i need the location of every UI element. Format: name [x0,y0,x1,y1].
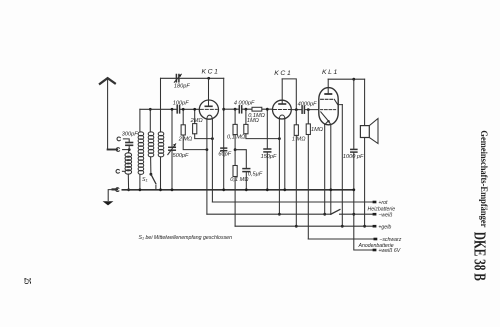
svg-text:100pF: 100pF [173,100,189,106]
anode loop V2 [282,79,296,110]
wire socket to node A [123,149,130,151]
svg-text:Gemeinschafts-Empfänger: Gemeinschafts-Empfänger [478,130,488,227]
terminal rot [373,201,377,204]
terminal schwarz [374,238,378,241]
wire 300pF to node A [128,145,130,149]
tube V1 KC1 [199,78,218,119]
svg-text:0,5µF: 0,5µF [248,171,263,177]
white heater line left [207,213,331,215]
junction left of 4000pF [234,108,237,111]
wave-change coil L3 [148,109,154,174]
terminal weiss 6V [373,249,377,252]
antenna [100,78,115,149]
junction right of 4000pF [245,108,248,111]
switch S1 contact junction [150,173,153,176]
capacitor C 60pF [221,148,227,151]
junction grid leak to cathode [206,148,209,151]
speaker feed line [364,79,366,125]
junction resistor chain middle [234,148,237,151]
capacitor C 4000pF first [239,106,241,113]
tube V2 KC1 [273,79,292,119]
junction 1M yellow [295,225,298,228]
feedback coil L4 [158,78,164,190]
svg-text:2MΩ: 2MΩ [190,118,204,124]
ground plug pin [113,188,117,190]
resistor chain R 0.1M lower [233,150,237,227]
grid resistor R 1M of V2 [244,109,280,138]
decoupling branch C 0.5uF [235,150,250,190]
svg-text:S1: S1 [142,177,148,183]
junction L4 bus [159,188,162,191]
antenna socket lower (coil tap, free) [116,169,119,173]
junction KL1 filament white [323,213,326,216]
junction 60pF line grid wire [222,108,225,111]
coupling wire to V2 grid [224,108,273,110]
capacitor C 4000pF second [302,106,304,113]
antenna coil L1 [125,150,132,190]
junction 500pF top [171,108,174,111]
main ground bus [122,189,353,191]
speaker [360,119,378,144]
svg-text:1MΩ: 1MΩ [247,118,260,124]
svg-text:4000pF: 4000pF [298,101,318,107]
svg-text:+weiß 6V: +weiß 6V [378,248,400,254]
wire 100pF to tube V1 grid [180,108,199,110]
heater switch lever [331,210,340,215]
ground wire [108,190,117,201]
capacitor C 300pF [126,143,133,146]
junction return to filament V2 [278,137,281,140]
earth socket [116,188,119,192]
svg-text:1 MΩ: 1 MΩ [292,137,306,143]
grid wire node [140,108,177,110]
filament pin V1 right to red line [211,119,213,202]
svg-text:1MΩ: 1MΩ [311,127,324,133]
red heater line [212,201,372,203]
variable capacitor C 500pF [168,109,176,190]
junction 1000pF anode line [352,78,355,81]
svg-text:60pF: 60pF [218,152,231,158]
junction 150pF top [266,108,269,111]
antenna socket top (free) [117,137,120,141]
junction 500pF bus [171,188,174,191]
svg-text:2 MΩ: 2 MΩ [178,136,193,142]
svg-text:S1 bei Mittelwellenempfang ges: S1 bei Mittelwellenempfang geschlossen [139,235,233,241]
svg-text:180pF: 180pF [174,84,190,90]
screen grid line to yellow [341,105,343,227]
junction KL1 filament bus [329,188,332,191]
junction V2 filament bus [283,188,286,191]
tuned circuit coil L2 [138,109,144,190]
svg-text:KL1: KL1 [322,69,339,76]
svg-text:KC1: KC1 [202,69,220,76]
grid leak resistor R 2M right [193,109,213,138]
junction 1000pF bus end [352,188,355,191]
svg-text:−weiß: −weiß [378,212,392,218]
junction V2 filament white [278,213,281,216]
terminal weiss [373,213,377,216]
junction L3 coil top [149,108,152,111]
svg-text:+gelb: +gelb [378,224,391,230]
grid bypass C 150pF [264,109,271,190]
junction speaker yellow [363,225,366,228]
svg-text:DKE 38 B: DKE 38 B [470,232,489,281]
anode drop line with 60pF branch [223,78,225,190]
yellow anode line [235,225,373,227]
anode top line KL1 [328,78,364,80]
node A junction [128,148,131,151]
filament pin V2 left [278,119,280,215]
svg-text:+rot: +rot [378,200,388,206]
anode bypass line with C 1000pF [351,79,373,250]
svg-text:0,1 MΩ: 0,1 MΩ [227,135,246,141]
resistor chain R 0.1M upper [233,109,237,150]
resistor R 0.1M horizontal [252,107,262,111]
trimmer capacitor C 180pF [174,74,181,82]
switch S1 lever [151,174,156,184]
junction 60pF bus [222,188,225,191]
junction coil to bus [127,188,130,191]
junction white line [352,213,355,216]
svg-text:500pF: 500pF [173,153,189,159]
filament pin V1 left to white line [206,119,208,214]
svg-text:4 000pF: 4 000pF [234,101,255,107]
speaker return to yellow [364,138,366,227]
svg-text:1000 pF: 1000 pF [343,154,364,160]
wire top socket to 300pF [123,139,129,142]
filament pin KL1 left [324,125,326,215]
tube V3 KL1 [319,79,343,125]
svg-text:150pF: 150pF [261,154,277,160]
junction anode V2 coupling [295,108,298,111]
antenna socket middle [116,148,119,152]
grid resistor R 1M of KL1 [306,110,310,239]
terminal gelb [373,225,377,228]
junction screen yellow [341,225,344,228]
black anode line [308,238,373,240]
wire antenna to socket [108,149,118,151]
svg-text:25: 25 [22,278,32,285]
top feedback line [161,77,224,79]
junction 150pF bus [266,188,269,191]
switch S1 lower contact stub [155,185,157,189]
svg-text:300pF: 300pF [122,132,138,138]
junction L2 bus [139,188,142,191]
wire V2 to KL1 grid [291,109,319,111]
junction anode V1 top line [207,77,210,80]
junction KL1 grid [307,108,310,111]
filament pin KL1 right [330,125,332,215]
anode resistor R 1M to yellow [294,110,298,227]
grid leak resistor R 2M left [181,109,207,149]
svg-text:−schwarz: −schwarz [379,237,401,243]
svg-text:KC1: KC1 [274,70,292,77]
capacitor C 100pF [177,106,179,113]
white heater line right [340,213,373,215]
junction 0.5uF bus [245,188,248,191]
ground symbol [103,201,114,205]
filament pin V2 right [284,119,286,190]
